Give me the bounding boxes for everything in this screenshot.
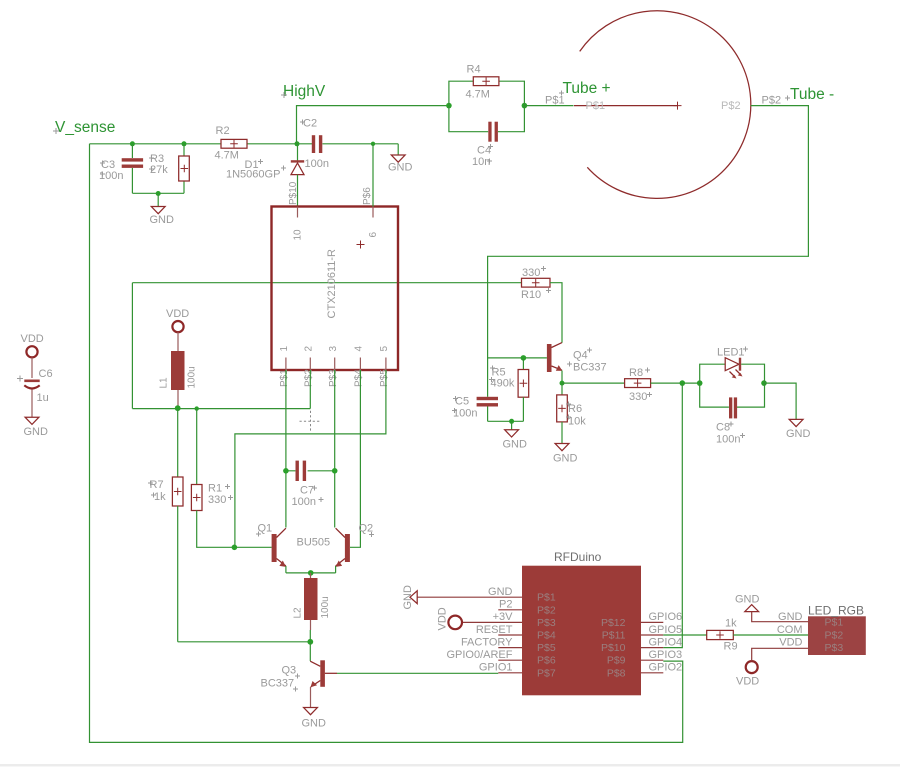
svg-text:C8: C8 [716,422,730,434]
RFDuino U1 box [522,566,641,696]
wire R7 bottom rail to Q3 base junction [178,641,311,643]
svg-text:GPIO3: GPIO3 [649,649,683,661]
transistor Q1 BU505 [256,523,286,573]
capacitor C2 [300,118,329,171]
svg-text:P$5: P$5 [537,642,556,654]
transistor Q4 BC337 [547,343,607,384]
svg-text:P$1: P$1 [279,369,290,387]
svg-text:GPIO5: GPIO5 [649,624,683,636]
origin crosshair (dashed) [300,411,321,432]
svg-text:1u: 1u [37,392,49,404]
wire pin3 down to Q2 collector [334,370,336,528]
resistor R6 [557,383,587,443]
svg-text:R7: R7 [150,479,164,491]
svg-text:VDD: VDD [166,308,189,320]
svg-text:P$7: P$7 [537,667,556,679]
svg-text:GPIO6: GPIO6 [649,611,683,623]
svg-text:+3V: +3V [493,611,514,623]
svg-text:GPIO2: GPIO2 [649,662,683,674]
svg-text:GPIO1: GPIO1 [479,662,513,674]
svg-text:GND: GND [778,611,803,623]
svg-text:P$10: P$10 [288,181,299,205]
svg-text:R4: R4 [467,64,481,76]
svg-text:100n: 100n [716,434,740,446]
svg-text:BC337: BC337 [573,362,607,374]
wire Q3 collector to GPIO1 [337,672,498,674]
resistor R8 [562,367,700,403]
svg-text:P$10: P$10 [601,642,626,654]
RFDuino pin P$4 RESET [476,624,556,642]
RFDuino pin P$2 P2 [498,599,556,617]
svg-text:RESET: RESET [476,624,513,636]
svg-text:BC337: BC337 [261,678,295,690]
svg-text:3: 3 [328,346,339,352]
svg-text:27k: 27k [150,164,168,176]
junction Q4 base / R5 top [521,355,527,361]
svg-text:V_sense: V_sense [55,119,115,136]
transformer pin 2 (P$2) [303,346,314,388]
svg-text:P$2: P$2 [303,369,314,387]
svg-text:100n: 100n [453,408,477,420]
pin label P$1 (outside) [545,91,565,107]
resistor R1 [191,409,234,548]
wire C5 drop from base line [487,358,489,397]
svg-text:VDD: VDD [437,607,449,630]
junction LED right [761,380,767,386]
svg-text:P$1: P$1 [825,617,844,629]
LED_RGB U2 box [808,616,866,655]
capacitor C4 [449,106,525,168]
LED LED1 [700,347,765,384]
svg-text:490k: 490k [491,378,515,390]
svg-text:RFDuino: RFDuino [554,550,602,564]
node HighV label [281,83,326,100]
svg-text:R2: R2 [216,125,230,137]
capacitor C7 [286,461,335,508]
ground GND (V_sense divider) [150,194,175,227]
wire pin4 down to Q2 base [350,370,360,547]
node Tube + label [563,80,611,97]
svg-text:P$5: P$5 [379,369,390,387]
svg-text:GND: GND [24,426,49,438]
junction Q4 emitter / R6 / R8 [560,381,565,386]
junction C5/R5 ground [509,419,514,424]
resistor R2 [215,125,248,162]
wire L1 drain rail to R10 (crosses transformer) [132,282,521,284]
transformer pin 5 (P$5) [379,346,390,388]
junction base rail [232,545,238,551]
svg-text:P$2: P$2 [537,604,556,616]
LED_RGB pin P$3 VDD [779,637,843,655]
svg-text:R10: R10 [521,289,541,301]
ground GND (LED_RGB, inverted) [735,594,808,622]
inductor L2 [293,573,332,641]
svg-text:4.7M: 4.7M [215,150,239,162]
supply VDD (C6) [21,333,44,378]
svg-text:1: 1 [279,346,290,352]
RFDuino pin P$6 GPIO0/AREF [446,649,555,667]
svg-text:BU505: BU505 [297,537,331,549]
svg-text:Q3: Q3 [282,665,297,677]
transformer pin 6 (P$6) [362,187,379,238]
svg-text:10: 10 [293,229,304,241]
node V_sense label [53,119,115,136]
svg-text:P$8: P$8 [607,667,626,679]
transformer pin 1 (P$1) [279,346,290,388]
svg-text:VDD: VDD [779,637,802,649]
transformer T1 CTX210611-R box [272,207,399,371]
wire HighV to R4 [297,106,449,144]
svg-text:FACTORY: FACTORY [461,636,513,648]
transformer pin 10 (P$10) [288,181,304,240]
svg-text:C5: C5 [455,396,469,408]
geiger tube GT1 body (arc) [580,11,751,199]
svg-text:R6: R6 [568,403,582,415]
wire C2 right to pin P$6 [372,144,374,207]
transformer origin cross [357,241,365,249]
resistor R7 [148,409,183,642]
svg-text:L2: L2 [293,607,304,619]
svg-text:GPIO4: GPIO4 [649,636,683,648]
svg-text:1k: 1k [154,491,166,503]
wire HighV to tube anode [524,105,573,107]
ground GND (C6) [24,417,49,438]
junction R8 / GPIO4 drop [680,380,686,386]
junction L2 bottom / Q3 base [307,639,313,645]
svg-text:CTX210611-R: CTX210611-R [326,249,338,319]
svg-text:P$6: P$6 [362,187,373,205]
RFDuino pin P$10 GPIO4 [601,636,682,654]
diode D1 1N5060GP [226,144,304,207]
svg-text:C6: C6 [39,368,53,380]
svg-text:C2: C2 [303,118,317,130]
resistor R3 [149,144,189,194]
svg-text:100u: 100u [187,366,198,388]
svg-text:Q4: Q4 [573,350,588,362]
wire Tube - loop to Q4 base [488,106,809,358]
svg-text:C7: C7 [300,485,314,497]
svg-text:P$2: P$2 [762,95,782,107]
svg-text:VDD: VDD [736,676,759,688]
svg-text:LED1: LED1 [717,347,745,359]
svg-text:330: 330 [208,494,226,506]
svg-text:4.7M: 4.7M [466,89,490,101]
svg-text:R9: R9 [724,641,738,653]
ground GND (C2 right) [388,144,413,174]
wire V_sense top rail [90,143,399,145]
RFDuino pin P$9 GPIO3 [607,649,682,667]
RFDuino pin P$7 GPIO1 [479,662,556,680]
svg-text:Tube -: Tube - [790,86,834,103]
svg-text:GND: GND [402,585,414,610]
supply VDD (LED_RGB) [736,648,808,687]
RFDuino pin P$12 GPIO6 [601,611,682,629]
svg-text:330: 330 [629,391,647,403]
capacitor C5 [452,396,498,422]
wire R10 to Q4 collector [550,283,562,343]
wire V_sense left rail and bottom loop to GPIO3 [90,144,683,743]
junction R1 top [195,406,199,410]
svg-text:Tube +: Tube + [563,80,611,97]
svg-text:P$3: P$3 [825,642,844,654]
svg-text:10n: 10n [472,156,490,168]
transistor Q3 BC337 [261,642,338,708]
svg-text:P$12: P$12 [601,617,626,629]
wire pin2 down to drain rail [309,370,311,409]
resistor R5 [489,358,529,421]
svg-text:P$1: P$1 [537,592,556,604]
ground GND (RFDuino, rotated) [402,585,417,610]
svg-text:GND: GND [150,214,175,226]
svg-text:Q1: Q1 [258,523,273,535]
ground GND (R6) [553,444,578,465]
svg-text:100n: 100n [292,496,316,508]
svg-text:R1: R1 [208,483,222,495]
svg-text:P2: P2 [499,599,512,611]
ground GND (R5/C5) [503,421,528,450]
resistor R10 [521,266,551,301]
svg-text:P$1: P$1 [586,100,606,112]
junction C7 left [283,468,289,474]
resistor R9 [707,618,808,653]
svg-text:P$9: P$9 [607,655,626,667]
svg-text:VDD: VDD [21,333,44,345]
wire base rail to Q1 [234,546,271,548]
LED_RGB pin P$1 GND [778,611,843,629]
junction dots on V_sense rail [130,141,375,146]
RFDuino pin P$8 GPIO2 [607,662,682,680]
pin label P$2 (outside) [762,95,791,107]
junction R4 right [522,103,528,109]
inductor L1 [159,351,198,407]
capacitor C8 [700,383,765,445]
svg-text:100n: 100n [305,158,329,170]
svg-text:COM: COM [777,624,803,636]
transformer pin 3 (P$3) [328,346,339,388]
wire LED junction down to GPIO4 [663,383,682,647]
svg-text:1k: 1k [725,618,737,630]
svg-text:GPIO0/AREF: GPIO0/AREF [446,649,512,661]
svg-text:5: 5 [379,346,390,352]
transistor Q2 BU505 (mirrored) [336,523,374,573]
LED_RGB pin P$2 COM [777,624,844,642]
junction at C3/R3 ground [156,191,161,196]
geiger tube anode line pin P$1 [574,102,682,110]
svg-text:P$11: P$11 [602,630,626,642]
RFDuino pin P$1 GND [417,586,556,604]
wire left rail to L1 bottom rail [131,283,133,409]
wire C3/R3 bottom [132,192,184,194]
svg-text:GND: GND [302,718,327,730]
wire L1 bottom rail [132,408,310,410]
transformer pin 4 (P$4) [354,346,365,388]
junction C7 right [332,468,338,474]
svg-text:P$6: P$6 [537,655,556,667]
svg-text:100u: 100u [320,596,331,618]
capacitor C3 [99,144,143,194]
junction emitter rail / L2 top [308,570,314,576]
supply VDD (RFDuino +3V, rotated) [437,607,463,630]
svg-text:GND: GND [388,162,413,174]
junction HighV / R4 left [446,103,452,109]
svg-text:GND: GND [735,594,760,606]
ground GND (Q3 emitter) [302,708,327,730]
svg-text:P$3: P$3 [537,617,556,629]
svg-text:P$2: P$2 [721,100,741,112]
svg-text:LED_RGB: LED_RGB [808,604,864,618]
wire pin5 down and over to base rail [235,370,386,547]
svg-text:L1: L1 [159,377,170,389]
svg-text:6: 6 [368,232,379,238]
RFDuino pin P$3 +3V [462,611,556,629]
svg-text:4: 4 [354,346,365,352]
junction L1 bottom [175,405,181,411]
RFDuino pin P$11 GPIO5 [602,624,682,642]
svg-text:R8: R8 [629,367,643,379]
svg-text:1N5060GP: 1N5060GP [226,169,280,181]
wire GPIO5 to R9 [663,634,706,636]
svg-text:2: 2 [303,346,314,352]
svg-text:P$4: P$4 [354,369,365,387]
wire pin1 down to Q1 collector [285,370,287,528]
RFDuino pin P$5 FACTORY [461,636,556,654]
svg-text:HighV: HighV [283,83,326,100]
svg-text:GND: GND [488,586,513,598]
svg-text:GND: GND [503,439,528,451]
svg-text:P$4: P$4 [537,630,556,642]
wire C5/R5 bottom [488,420,524,422]
wire emitter rail [286,572,336,574]
capacitor C6 1u (polarized) [17,368,53,417]
svg-text:GND: GND [553,453,578,465]
svg-text:Q2: Q2 [359,523,374,535]
junction LED left [697,380,703,386]
supply VDD (L1) [166,308,189,351]
ground GND (LED1/C8) [764,383,811,440]
resistor R4 [449,64,525,106]
svg-text:GND: GND [786,428,811,440]
svg-text:P$2: P$2 [825,629,844,641]
svg-text:P$3: P$3 [328,369,339,387]
svg-text:330: 330 [522,267,540,279]
